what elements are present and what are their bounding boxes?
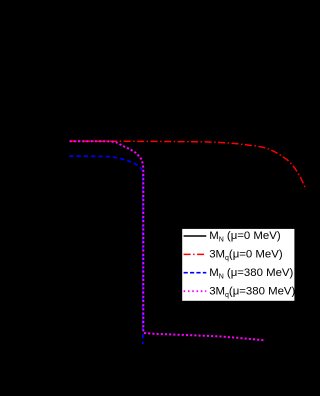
curve 3Mq mu=0 (red dash-dot): [70, 141, 306, 189]
legend sample line: magenta dotted: [184, 290, 207, 292]
svg-text:3Mq(μ=380 MeV): 3Mq(μ=380 MeV): [209, 285, 295, 298]
svg-text:3Mq(μ=0 MeV): 3Mq(μ=0 MeV): [209, 249, 283, 262]
legend box: [182, 229, 294, 301]
legend sample line: blue dashed: [184, 272, 207, 274]
curve 3Mq mu=380 lower branch (magenta dotted): [144, 333, 265, 340]
legend sample line: red dash-dot: [184, 253, 207, 255]
curve M_N mu=380 (blue dashed, flat then vertical drop): [69, 156, 143, 344]
curve M_N mu=0 (black solid, invisible on black background): [70, 156, 306, 186]
curve 3Mq mu=380 upper branch + vertical drop (magenta dotted): [70, 141, 144, 332]
legend sample line: black solid: [184, 235, 207, 237]
